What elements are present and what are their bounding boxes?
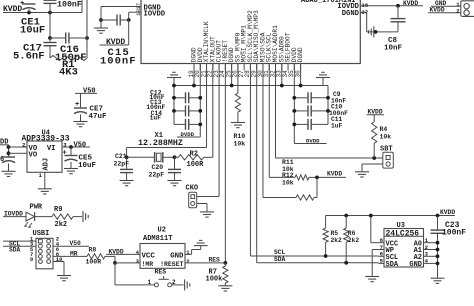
svg-text:2k2: 2k2 <box>55 221 68 229</box>
svg-text:10uF: 10uF <box>78 162 97 170</box>
wire filter node up to cut-off pin <box>86 0 88 58</box>
capacitor C16 150pF <box>50 37 66 39</box>
crystal X1 12.288MHZ <box>127 156 155 158</box>
node R5/SCL <box>324 254 328 258</box>
svg-text:IOVDD: IOVDD <box>144 10 166 18</box>
svg-text:V50: V50 <box>70 240 82 247</box>
wire U3 VCC to KVDD rail <box>371 242 379 244</box>
wire pin21 XTALIN down-left to crystal <box>206 64 208 148</box>
svg-text:USBI: USBI <box>33 230 50 238</box>
svg-text:100R: 100R <box>86 258 102 265</box>
capacitor CE5 10uF <box>70 147 72 156</box>
node C23 top <box>436 214 440 218</box>
capacitor C21 22pF <box>126 157 128 169</box>
svg-text:V50: V50 <box>74 141 87 149</box>
svg-text:2k2: 2k2 <box>348 237 360 244</box>
node SBT <box>372 156 376 160</box>
wire to VO lower <box>9 152 21 154</box>
wire pin33 to rail <box>281 64 283 86</box>
svg-text:10k: 10k <box>282 179 294 186</box>
svg-text:R11: R11 <box>282 159 294 166</box>
resistor R12 10k <box>262 64 264 198</box>
svg-text:DGND: DGND <box>297 47 304 62</box>
wire pin20 DVDD down <box>199 64 201 138</box>
ground (pin37) <box>369 26 374 37</box>
wire pin19 to rail <box>193 64 195 86</box>
svg-text:5.6nF: 5.6nF <box>13 51 45 63</box>
svg-text:R10: R10 <box>234 133 246 140</box>
svg-text:SDA: SDA <box>386 261 399 269</box>
svg-text:KVDD: KVDD <box>403 0 418 7</box>
ground (CE5) <box>64 169 78 174</box>
svg-text:MR: MR <box>70 250 78 257</box>
wire to VO upper <box>9 146 21 148</box>
node crystal left <box>125 155 129 159</box>
svg-text:RES: RES <box>155 269 167 276</box>
svg-text:1uF: 1uF <box>331 123 343 130</box>
ground (RES button) <box>185 279 190 290</box>
svg-text:10nF: 10nF <box>384 45 403 53</box>
svg-text:100k: 100k <box>206 276 223 284</box>
ground (SBT) <box>355 172 369 177</box>
resistor R2 100R <box>212 64 214 158</box>
capacitor CE6 (cut) <box>2 156 15 158</box>
wire KVDD rail to PLL pin <box>3 12 82 14</box>
svg-text:DGND: DGND <box>342 10 360 18</box>
svg-text:KVDD: KVDD <box>327 171 342 178</box>
U3 pin 5 SDA / pin 4 GND <box>379 262 385 264</box>
svg-text:DVDD: DVDD <box>306 137 320 144</box>
resistor R10 10k <box>237 64 239 94</box>
wire KVDD rail (U3 area) <box>326 215 455 217</box>
svg-text:1uF: 1uF <box>150 115 162 122</box>
ground (R7) <box>218 286 232 291</box>
resistor R11 10k <box>268 64 270 178</box>
svg-text:C20: C20 <box>152 164 164 171</box>
LED PWR diode <box>26 212 35 221</box>
svg-text:R6: R6 <box>348 230 356 237</box>
svg-text:R5: R5 <box>331 230 339 237</box>
node filter left <box>48 36 52 40</box>
resistor R5 2k2 <box>325 216 327 229</box>
svg-text:R8: R8 <box>89 247 97 254</box>
svg-text:SDA: SDA <box>274 256 286 263</box>
svg-text:GND: GND <box>170 252 184 260</box>
ground (CKO) <box>200 212 214 217</box>
wire pin36 to rail <box>300 64 302 86</box>
wire SBT pin2 to ground <box>362 163 383 165</box>
svg-text:ADM811T: ADM811T <box>143 235 172 243</box>
ground (U4 ADJ) <box>38 189 52 194</box>
capacitor C15 100nF <box>99 18 103 22</box>
wire USBI pin8 MR to R8 <box>53 255 87 257</box>
net DVDD label (right bank) <box>294 143 326 145</box>
wire U2 RESET to RES node <box>185 262 225 264</box>
ground (R10) <box>231 123 245 128</box>
wire pin32 to SBT <box>275 64 277 159</box>
svg-text:VO: VO <box>29 151 38 159</box>
svg-text:KVDD: KVDD <box>106 38 125 47</box>
svg-text:RES: RES <box>209 256 221 263</box>
wire USBI pin10 to ground <box>53 261 64 263</box>
wire U3 A0/A1/A2/GND to ground line <box>429 242 438 244</box>
capacitor C11 1uF <box>294 123 308 125</box>
net V50 label (USBI pin4) <box>53 245 89 247</box>
svg-text:KVDD: KVDD <box>109 248 124 255</box>
svg-text:+: + <box>63 150 67 158</box>
resistor R7 100k <box>223 266 228 283</box>
svg-text:GND: GND <box>409 261 422 269</box>
capacitor C13 100nF <box>174 110 186 112</box>
ground (U3/C23) <box>431 278 445 283</box>
ground (USBI) <box>57 276 71 281</box>
svg-text:10k: 10k <box>234 141 246 148</box>
wire left cap bank ground rail drop <box>173 86 175 125</box>
ground (R9) <box>83 211 88 222</box>
svg-text:SDA: SDA <box>9 246 21 253</box>
wire down to filter node <box>49 13 51 39</box>
svg-text:CKO: CKO <box>186 185 199 193</box>
node C8 top <box>396 4 400 8</box>
svg-text:KVDD: KVDD <box>440 209 455 216</box>
svg-text:!MR: !MR <box>142 261 154 268</box>
node crystal right <box>173 155 177 159</box>
ground (rail left) <box>173 78 175 86</box>
wire pin25 to rail <box>231 64 233 86</box>
net SCL label (USBI pin1) <box>3 240 36 242</box>
wire DGND rail under chip <box>174 85 328 87</box>
capacitor C17 5.6nF <box>49 38 51 43</box>
svg-text:C21: C21 <box>115 153 127 160</box>
svg-text:ADJ: ADJ <box>43 158 51 171</box>
svg-text:4K3: 4K3 <box>59 67 78 79</box>
wire SDA net pin29 to U3 <box>256 64 258 263</box>
svg-text:100nF: 100nF <box>100 55 137 67</box>
ground (WP) <box>365 277 379 282</box>
node MR <box>113 261 117 265</box>
wire pin18 IOVDD to C15 right <box>129 11 135 13</box>
node CE1/KVDD junction <box>27 11 31 15</box>
wire U2 GND to ground <box>185 253 192 255</box>
svg-text:47uF: 47uF <box>89 113 108 121</box>
svg-text:2k2: 2k2 <box>331 237 343 244</box>
ground (C20) <box>168 181 182 186</box>
ground (C21) <box>120 181 134 186</box>
svg-text:24LC256: 24LC256 <box>386 229 420 238</box>
ground (CE6) <box>2 171 16 176</box>
wire pin38 IOVDD to KVDD <box>367 5 423 7</box>
svg-text:R4: R4 <box>380 126 388 133</box>
ground (U2) <box>194 240 208 245</box>
capacitor C8 10nF <box>397 6 399 19</box>
svg-text:22pF: 22pF <box>149 171 165 178</box>
net SDA label (USBI pin3) <box>3 245 36 247</box>
node C? junction <box>48 11 52 15</box>
capacitor 100nF (top, cut off) <box>44 0 57 3</box>
svg-text:100nF: 100nF <box>442 228 466 237</box>
svg-text:12.288MHZ: 12.288MHZ <box>138 139 183 148</box>
net DVDD label (left bank) <box>177 136 200 138</box>
ground (C15 left) <box>100 20 102 28</box>
resistor R1 4K3 <box>50 55 87 60</box>
wire pin37 DGND down <box>366 12 368 32</box>
capacitor C12 10nF <box>174 97 186 99</box>
svg-text:DVDD: DVDD <box>181 131 195 138</box>
wire RES button to ground <box>172 284 184 286</box>
svg-text:VCC: VCC <box>142 252 156 260</box>
capacitor C10 100nF <box>294 110 308 112</box>
wire right cap bank ground drop <box>327 86 329 125</box>
svg-text:R9: R9 <box>54 206 62 214</box>
wire to U2 MR <box>115 262 140 264</box>
wire U4 VI to V50 <box>68 146 90 148</box>
svg-text:100nF: 100nF <box>57 0 82 9</box>
capacitor C14 1uF <box>174 123 186 125</box>
net KVDD label (U2 VCC) <box>106 253 140 255</box>
node R11/R12 join <box>315 176 319 180</box>
U3 pin 8 VCC / pin 1 A0 <box>379 242 385 244</box>
svg-text:R12: R12 <box>282 172 294 179</box>
node CE5 <box>69 145 73 149</box>
wire pin23 CLKOUT to CKO <box>218 64 220 197</box>
svg-text:PWR: PWR <box>30 204 43 212</box>
ground (rail right) <box>322 78 324 86</box>
svg-text:U2: U2 <box>158 227 166 235</box>
node R6/SDA <box>344 261 348 265</box>
capacitor C9 10nF <box>294 97 308 99</box>
wire U3 WP to ground <box>372 249 378 251</box>
wire SCL net pin28 to U3 <box>249 64 251 257</box>
svg-text:100R: 100R <box>187 161 205 169</box>
wire up to cut-off pin <box>81 0 83 13</box>
U3 pin 7 WP / pin 2 A1 <box>379 249 385 251</box>
node filter right <box>85 36 89 40</box>
svg-text:22pF: 22pF <box>114 161 130 168</box>
svg-text:V50: V50 <box>83 87 96 95</box>
resistor R9 2k2 <box>35 216 52 218</box>
wire pin35 DVDD down <box>293 64 295 144</box>
svg-text:10k: 10k <box>380 134 392 141</box>
op-amp U1 ADAU1701 DSP (body cut off at top) <box>141 0 360 64</box>
svg-text:6: 6 <box>0 156 4 164</box>
wire pin24 RESET down to RES node <box>224 64 226 263</box>
node C8 bottom / DGND <box>374 30 378 34</box>
wire MR node to RES button <box>114 263 116 285</box>
resistor R8 100R <box>87 254 105 259</box>
U3 pin 6 SCL / pin 3 A2 <box>379 255 385 257</box>
svg-text:R2: R2 <box>190 150 198 158</box>
svg-text:!RESET: !RESET <box>160 261 184 268</box>
svg-text:VI: VI <box>47 145 56 153</box>
wire pin17 DGND to C15 left <box>101 6 135 8</box>
node R6 top <box>344 214 348 218</box>
node RES <box>223 261 227 265</box>
net KVDD label (C15 right) <box>128 20 130 45</box>
ground (CE7) <box>74 122 88 127</box>
wire CKO pin2 to ground <box>197 203 208 205</box>
capacitor C20 22pF <box>174 157 176 169</box>
svg-text:10uF: 10uF <box>20 25 45 37</box>
